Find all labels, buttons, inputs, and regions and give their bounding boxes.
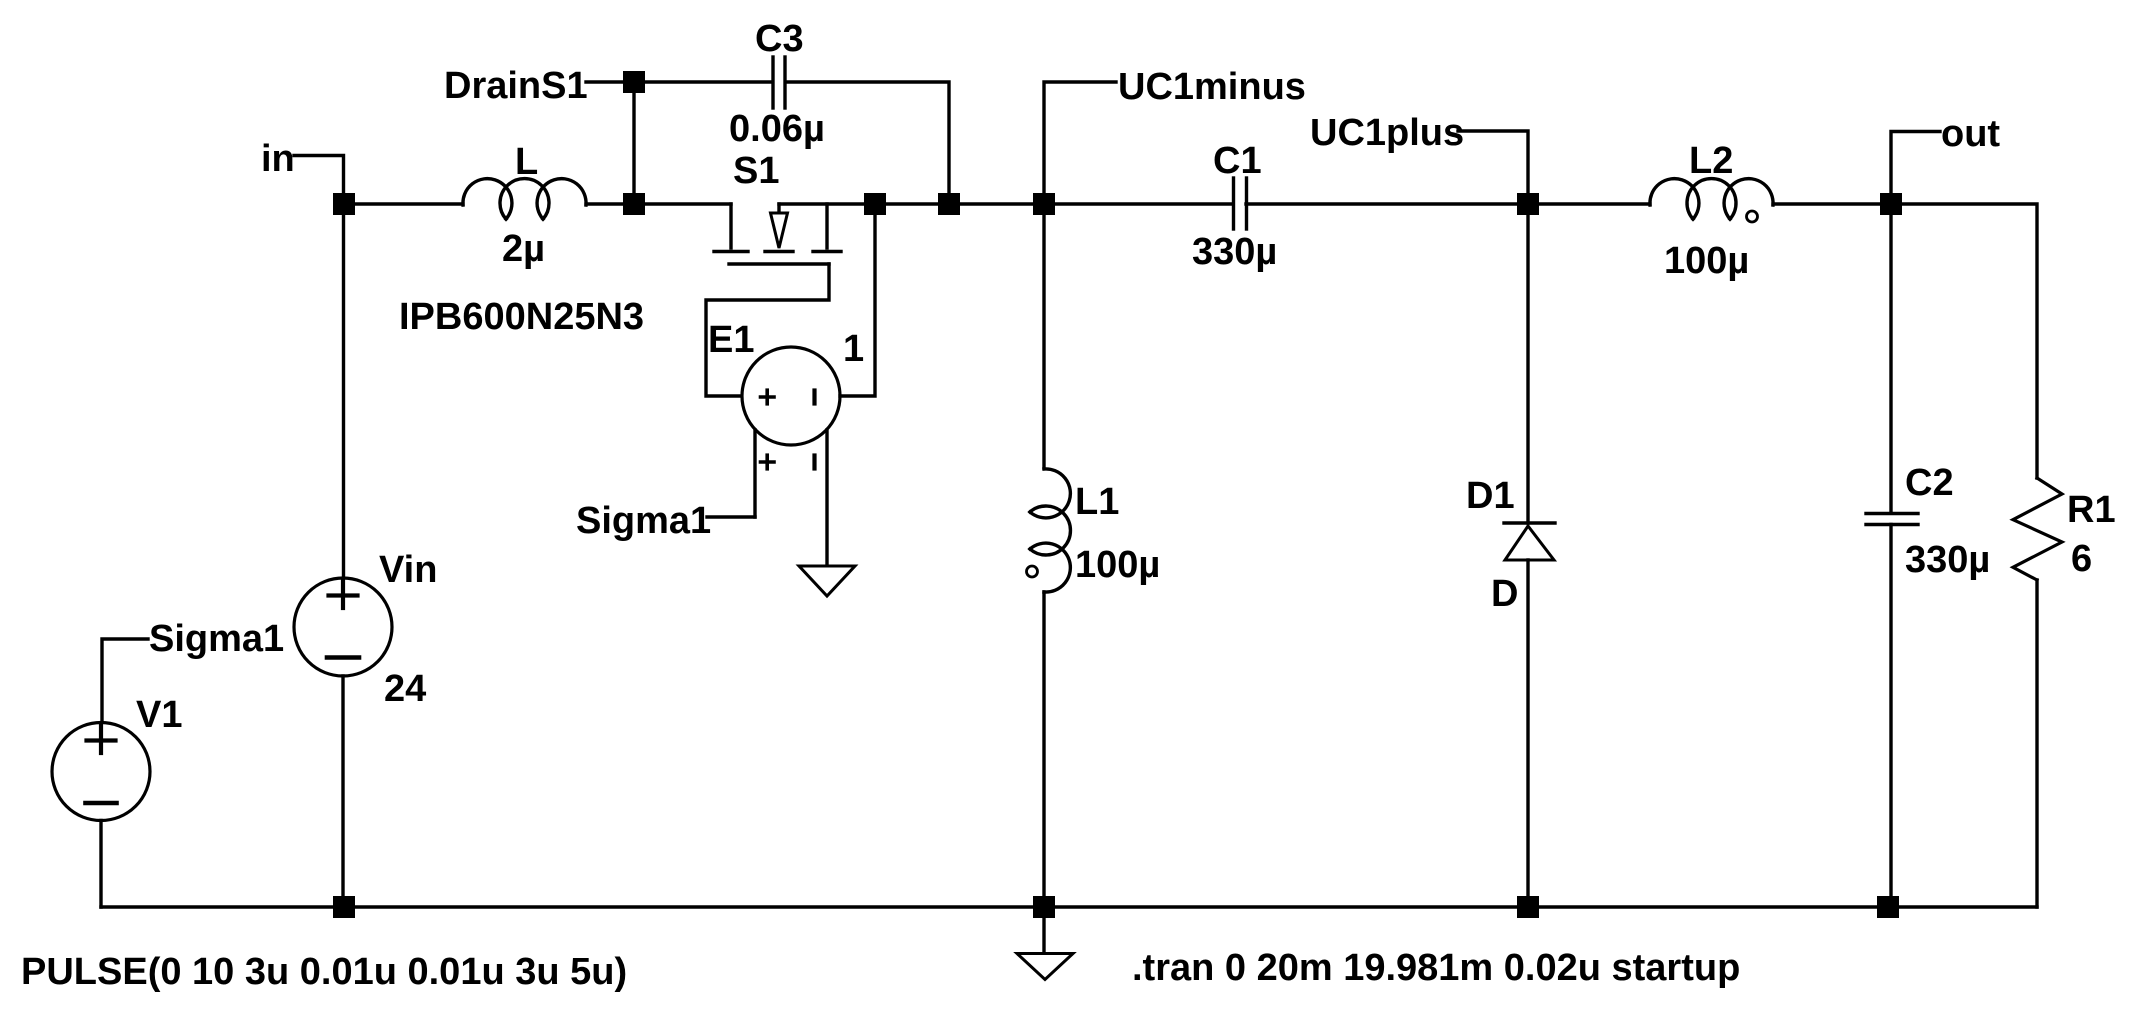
svg-text:UC1minus: UC1minus bbox=[1118, 66, 1306, 108]
svg-text:0.06µ: 0.06µ bbox=[729, 108, 825, 150]
svg-text:R1: R1 bbox=[2067, 489, 2116, 531]
wire DrainS1 label lead bbox=[586, 80, 634, 83]
wire E1 right pin up to node bbox=[840, 204, 875, 396]
svg-text:.tran 0 20m 19.981m 0.02u star: .tran 0 20m 19.981m 0.02u startup bbox=[1132, 947, 1740, 989]
capacitor C1 bbox=[1234, 178, 1247, 229]
wire UC1plus label lead bbox=[1458, 131, 1528, 204]
svg-text:L2: L2 bbox=[1689, 140, 1733, 182]
wire DrainS1 node down to top rail bbox=[632, 82, 635, 204]
wire V1 bottom lead bbox=[99, 821, 102, 908]
wire D1 top lead bbox=[1526, 204, 1529, 523]
wire top rail: in node to L bbox=[344, 202, 463, 205]
svg-text:E1: E1 bbox=[708, 319, 754, 361]
wire L1 top lead bbox=[1042, 204, 1045, 468]
resistor R1 bbox=[2013, 478, 2062, 580]
wire top rail: L2 to R1 corner bbox=[1773, 204, 2037, 478]
svg-text:S1: S1 bbox=[733, 150, 779, 192]
svg-text:DrainS1: DrainS1 bbox=[444, 65, 588, 107]
node junction C3 right bbox=[938, 193, 960, 215]
svg-text:Sigma1: Sigma1 bbox=[576, 500, 711, 542]
wire out label lead bbox=[1891, 132, 1940, 205]
node junction S1/E1 bbox=[864, 193, 886, 215]
wire L1 bottom lead bbox=[1042, 592, 1045, 907]
wire L to switch S1 drain bbox=[586, 202, 731, 205]
wire UC1minus label lead bbox=[1044, 82, 1116, 204]
svg-text:PULSE(0 10 3u 0.01u 0.01u 3u 5: PULSE(0 10 3u 0.01u 0.01u 3u 5u) bbox=[21, 951, 627, 993]
wire D1 bottom lead bbox=[1526, 560, 1529, 907]
svg-text:330µ: 330µ bbox=[1905, 539, 1990, 581]
capacitor C3 bbox=[773, 57, 785, 108]
svg-text:D: D bbox=[1491, 573, 1518, 615]
inductor L1 bbox=[1030, 469, 1071, 592]
wire Sigma1 left label lead bbox=[102, 639, 148, 723]
svg-text:2µ: 2µ bbox=[502, 228, 545, 270]
svg-text:24: 24 bbox=[384, 668, 426, 710]
wire Vin top lead bbox=[342, 204, 345, 578]
node junction ground bottom bbox=[1033, 896, 1055, 918]
voltage source Vin bbox=[294, 578, 392, 676]
phase dot L2 bbox=[1747, 211, 1758, 222]
wire top rail: S1 to C1 bbox=[779, 202, 1233, 205]
svg-text:in: in bbox=[261, 138, 295, 180]
wire C2 bottom lead bbox=[1889, 525, 1892, 908]
node junction L/DrainS1 bbox=[623, 193, 645, 215]
op source E1 circle bbox=[742, 347, 840, 445]
wire Sigma1 lead to E1 control bbox=[707, 515, 755, 518]
voltage source V1 bbox=[52, 723, 150, 821]
node junction DrainS1 top bbox=[623, 71, 645, 93]
inductor L bbox=[463, 179, 586, 220]
wire S1 gate to E1 left pin bbox=[706, 264, 829, 396]
wire C3 left lead bbox=[634, 80, 772, 83]
capacitor C2 bbox=[1866, 514, 1918, 525]
wire C2 top lead bbox=[1889, 204, 1892, 513]
node junction Vin bottom bbox=[333, 896, 355, 918]
svg-text:330µ: 330µ bbox=[1192, 231, 1277, 273]
svg-text:C2: C2 bbox=[1905, 462, 1954, 504]
svg-text:C3: C3 bbox=[755, 18, 804, 60]
node junction in/Vin bbox=[333, 193, 355, 215]
svg-text:UC1plus: UC1plus bbox=[1310, 112, 1464, 154]
svg-text:Vin: Vin bbox=[379, 549, 437, 591]
svg-text:L: L bbox=[515, 141, 538, 183]
node junction UC1plus/D1 bbox=[1517, 193, 1539, 215]
svg-text:Sigma1: Sigma1 bbox=[149, 618, 284, 660]
svg-text:100µ: 100µ bbox=[1664, 240, 1749, 282]
phase dot L1 bbox=[1027, 566, 1038, 577]
switch S1 body bbox=[714, 204, 841, 264]
svg-text:IPB600N25N3: IPB600N25N3 bbox=[399, 296, 644, 338]
wire in-label lead bbox=[294, 156, 344, 205]
wire Vin bottom lead bbox=[341, 676, 344, 907]
svg-text:L1: L1 bbox=[1075, 481, 1119, 523]
wire bottom ground rail bbox=[101, 905, 2037, 908]
node junction C2 bottom bbox=[1877, 896, 1899, 918]
node junction UC1minus/L1 bbox=[1033, 193, 1055, 215]
svg-text:out: out bbox=[1941, 113, 2000, 155]
E1 control pins bbox=[755, 430, 827, 565]
node junction out/C2 bbox=[1880, 193, 1902, 215]
ground bottom center bbox=[1017, 954, 1073, 980]
svg-text:100µ: 100µ bbox=[1075, 544, 1160, 586]
svg-text:1: 1 bbox=[843, 328, 864, 370]
svg-text:V1: V1 bbox=[136, 694, 182, 736]
diode D1 bbox=[1504, 523, 1555, 560]
ground below E1 bbox=[799, 566, 855, 596]
inductor L2 bbox=[1650, 179, 1773, 220]
wire ground stem bottom bbox=[1042, 907, 1045, 953]
wire R1 bottom lead bbox=[2035, 580, 2038, 907]
svg-text:C1: C1 bbox=[1213, 140, 1262, 182]
wire C3 right lead down to top rail bbox=[786, 82, 949, 204]
svg-text:6: 6 bbox=[2071, 538, 2092, 580]
node junction D1 bottom bbox=[1517, 896, 1539, 918]
svg-text:D1: D1 bbox=[1466, 475, 1515, 517]
wire top rail: C1 to L2 bbox=[1246, 202, 1650, 205]
